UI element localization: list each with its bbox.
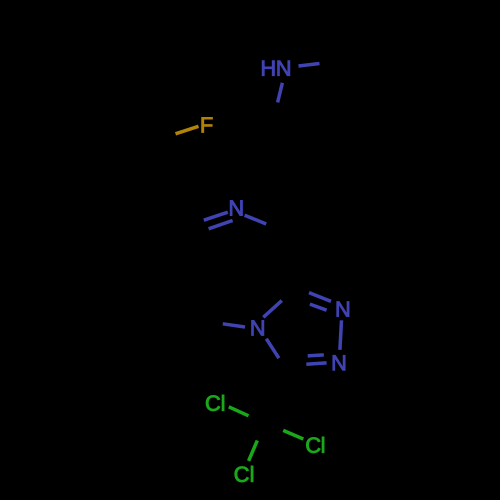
wire C to Cl1 half-bond	[229, 407, 249, 416]
node F fluorine label	[202, 117, 213, 132]
wire C to Cl3 half-bond	[249, 441, 258, 461]
node N4 ring-junction nitrogen label	[252, 320, 264, 335]
node Cl2 chlorine label	[306, 437, 324, 453]
node N5 imine nitrogen label	[230, 201, 242, 216]
wire CH2 to N4 half-bond	[223, 324, 245, 327]
wire C to Cl2 half-bond	[283, 430, 303, 439]
node N3 triazole nitrogen label	[333, 355, 345, 370]
wire N5=C6 double bond inner half	[209, 221, 233, 229]
wire HN to pyrrolidine C2 half-bond	[299, 64, 320, 67]
wire N4 to C8a half-bond	[263, 301, 282, 318]
node Cl1 chlorine label	[206, 395, 224, 411]
wire N2-N3 bond	[340, 320, 342, 350]
wire N4 to C3 half-bond	[266, 339, 279, 359]
node HN pyrrolidine NH label	[262, 61, 290, 76]
wire F to phenyl C half-bond	[176, 126, 199, 134]
wire N3=C3 double bond main half	[306, 363, 326, 364]
wire C8a=N2 double bond inner half	[310, 304, 327, 310]
wire N5 to C half-bond	[245, 215, 267, 224]
node Cl3 chlorine label	[235, 466, 253, 482]
wire HN to pyrrolidine C5 half-bond	[278, 83, 283, 103]
wire N5=C6 double bond main half	[204, 212, 228, 220]
node N2 triazole nitrogen label	[337, 302, 349, 317]
wire C8a=N2 double bond main half	[309, 293, 331, 302]
wire N3=C3 double bond inner half	[308, 355, 324, 356]
